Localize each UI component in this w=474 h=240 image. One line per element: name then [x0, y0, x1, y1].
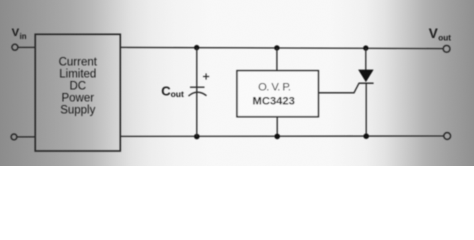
- label Vout: [429, 26, 452, 42]
- wire bottom rail: supply box to bottom-right terminal: [120, 135, 444, 137]
- SCR Q1 triangle: [359, 70, 373, 81]
- polarity plus sign: [203, 73, 209, 79]
- capacitor Cout top plate: [190, 86, 205, 88]
- wire top rail: supply box to Vout terminal: [120, 47, 443, 48]
- wire bottom-left terminal to supply box: [17, 136, 35, 138]
- label Cout: [161, 83, 184, 99]
- SCR cathode bar: [359, 82, 374, 84]
- output terminal +: [443, 45, 450, 52]
- wire OVP bottom lead: [276, 117, 278, 137]
- junction dot bottom of Cout: [194, 134, 200, 140]
- junction dot bottom of SCR: [363, 133, 369, 139]
- wire OVP top lead: [276, 48, 278, 71]
- supply box (Current Limited DC Power Supply): [35, 34, 120, 151]
- wire Vin terminal to supply box: [18, 46, 35, 48]
- label Vin: [12, 27, 27, 41]
- wire SCR cathode lead: [365, 83, 367, 136]
- junction dot top of OVP: [274, 45, 279, 50]
- junction dot top of SCR: [363, 45, 368, 50]
- OVP box text: [253, 82, 295, 108]
- input terminal +: [12, 44, 18, 50]
- wire OVP output to SCR gate: [318, 83, 359, 93]
- output terminal - (bottom right): [444, 133, 451, 140]
- wire Cout branch vertical: [196, 48, 198, 137]
- junction dot top of Cout: [194, 45, 199, 50]
- capacitor Cout curved plate: [189, 92, 207, 96]
- wire SCR anode lead: [365, 48, 367, 70]
- scan grain overlay: [0, 0, 474, 166]
- OVP box U1: [237, 71, 318, 117]
- junction dot bottom of OVP: [274, 134, 280, 140]
- input terminal - (bottom left): [11, 134, 17, 140]
- supply box text: [59, 56, 98, 116]
